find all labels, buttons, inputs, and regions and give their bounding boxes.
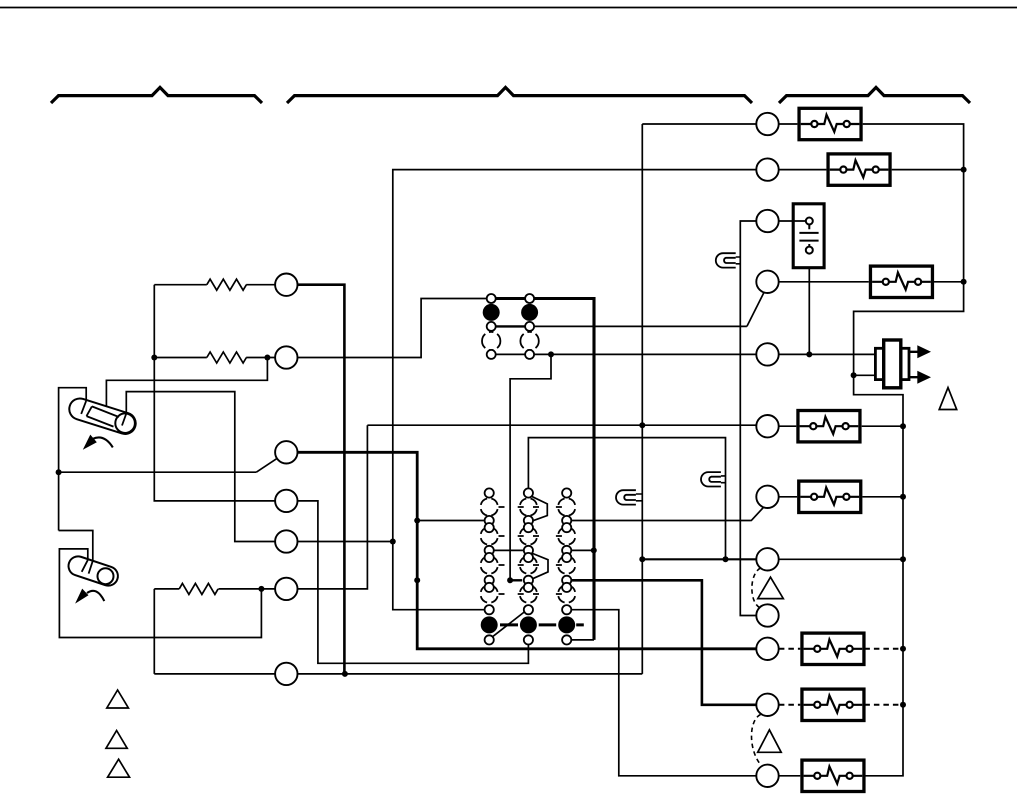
- tick marks at dashed rows: [499, 507, 562, 594]
- junction dot x417 at row y520: [414, 518, 420, 524]
- terminal B: [756, 548, 778, 570]
- lamp L2 (pilot light): [701, 472, 725, 486]
- wire: lower stack row y609 right to terminal F: [571, 610, 756, 776]
- wire: terminal A right to relay K5 and bus x903: [779, 496, 903, 498]
- terminal L6: [275, 578, 297, 600]
- LOWER CONTACT STACK (system switch): [481, 488, 584, 644]
- terminal L2: [275, 346, 297, 368]
- terminal L3: [275, 441, 297, 463]
- bars at filled contact row: [500, 623, 584, 626]
- note triangle 6: [108, 759, 130, 777]
- terminal R5: [756, 343, 778, 365]
- terminal C: [756, 604, 778, 626]
- RELAYS: [798, 108, 933, 791]
- wire: lower stack row y580 right to relay row E (thick): [571, 580, 756, 705]
- terminal F: [756, 765, 778, 787]
- page top border: [0, 7, 1017, 9]
- lamp L1 (pilot light): [716, 253, 741, 267]
- wire: mercury switch 1 third electrode to terminal L5: [126, 392, 275, 542]
- dashed arc terminal E to F: [752, 715, 761, 765]
- terminal R4: [756, 271, 778, 293]
- wire: terminal R2 to relay K2 and right bus: [779, 169, 964, 171]
- wire: lower stack row y550 segments to thick vertical: [494, 549, 594, 551]
- relay K1 (fan relay): [799, 108, 861, 139]
- wire: upper stack bottom row to transformer row R5: [491, 353, 875, 355]
- relay K8: [802, 760, 864, 791]
- terminal R1: [756, 113, 778, 135]
- resistor R3 zigzag: [179, 583, 218, 594]
- wire: thick stub into lower stack col2 row y580: [510, 579, 522, 581]
- wire: mercury switch 1 left electrode to common bus: [59, 388, 87, 531]
- zigzag link col2 wafer3: [530, 553, 548, 580]
- relay K3: [870, 266, 932, 297]
- bottom small contact circles: [485, 635, 572, 644]
- dashed large circles col2: [520, 499, 537, 603]
- contact filled circles row y312: [483, 304, 538, 321]
- wire: common row y472 to switch blade: [59, 471, 257, 473]
- wire: transformer bottom input from bus: [854, 374, 876, 376]
- filled contact circles bottom row: [481, 616, 576, 633]
- terminal R3: [756, 210, 778, 232]
- junction dot x510 at row y580: [507, 577, 513, 583]
- UPPER CONTACT STACK (fan switch): [482, 294, 539, 359]
- resistor R2 zigzag: [207, 352, 247, 363]
- dashed wire relay K6 to bus x903: [864, 648, 903, 650]
- wire: terminal L4 right to lower stack col2 bottom: [298, 501, 529, 663]
- wire: terminal L7 row to lamp bus x642: [154, 673, 642, 675]
- RIGHT TERMINALS: [756, 113, 778, 787]
- wire: x594 bottom link to lower stack col3 bottom contact: [571, 639, 594, 641]
- junction dot stack row to R5 row: [548, 351, 554, 357]
- contact small circles row y298: [487, 294, 534, 303]
- wire: terminal L2 right to upper contact stack top row: [298, 299, 487, 358]
- wire: upper stack row2 to blade of terminal R4: [534, 325, 747, 327]
- wire: row y437 from lower stack col2 top to vertical x725: [528, 438, 725, 560]
- junction dot switch box to R5 row: [806, 351, 812, 357]
- wire: relay row R6 long horizontal: [367, 424, 756, 426]
- wire: relay K1 right to right bus, bus loop to transformer and bus x903: [854, 124, 964, 776]
- wire: terminal R6 right to relay K4 and bus x903: [779, 425, 903, 427]
- wire: terminal L1 to vertical bus x344 (thick): [298, 285, 345, 674]
- switch blade at terminal L3: [256, 458, 277, 472]
- junction dot transformer input: [851, 372, 857, 378]
- junction dot bus x903 at K7: [900, 702, 906, 708]
- junction dot x725 at row B: [723, 556, 729, 562]
- dashed large circles col1: [481, 499, 498, 603]
- junction dot L5 to x393 bus: [390, 539, 396, 545]
- note triangle 2: [758, 577, 784, 598]
- junction dot bus x903 at row B: [900, 556, 906, 562]
- LEFT TERMINALS: [275, 274, 297, 686]
- wire: terminal B right to bus x903: [779, 558, 903, 560]
- mercury switch 1: [67, 396, 139, 450]
- wire: terminal R3 right into switch box: [779, 220, 806, 222]
- relay K4: [798, 411, 860, 442]
- wire: terminal L3 to vertical x417 down to relay row D (thick): [298, 452, 757, 649]
- note triangle 1: [939, 388, 957, 410]
- junction dot L6 resistor node: [258, 586, 264, 592]
- relay K2: [828, 154, 890, 185]
- wire: lower stack row y520 right to blade of terminal A: [571, 520, 751, 522]
- wire: lamp bus vertical x642 from relay row1 to L7 row: [641, 124, 643, 674]
- transformer power symbol: [875, 340, 931, 388]
- junction dot lamp bus at row R6: [639, 422, 645, 428]
- terminal A: [756, 486, 778, 508]
- terminal R6: [756, 415, 778, 437]
- small contact circles col1: [485, 488, 494, 614]
- wire: upper stack top row thick to vertical x594 down to col3 bottom: [489, 299, 594, 640]
- switch blade at terminal R4: [747, 292, 764, 326]
- zigzag link col2 wafer1: [530, 496, 547, 522]
- dashed wire terminal E to relay K7: [779, 704, 800, 706]
- junction dot right bus at K3: [961, 279, 967, 285]
- terminal R2: [756, 158, 778, 180]
- wire: terminal R4 right to relay K3 and right bus: [779, 281, 964, 283]
- blade link col1 bottom to col2: [493, 612, 525, 637]
- junction dot right bus at K2: [961, 167, 967, 173]
- wire: terminal F right to relay K8: [779, 775, 800, 777]
- note triangle 3: [758, 730, 782, 753]
- wire: terminal R3 left, pilot bus x740 down to terminal C: [740, 221, 756, 616]
- junction dot lamp bus at row B: [639, 556, 645, 562]
- wire: upper stack top row contacts bar: [487, 297, 534, 299]
- junction dot L1/L2 resistor bus: [151, 355, 157, 361]
- contact small circles row y326: [487, 322, 534, 331]
- wire: upper stack row2 bar (thick): [491, 325, 529, 327]
- wire: mercury switch 2 electrode B feed: [59, 531, 93, 561]
- terminal L7: [275, 663, 297, 685]
- wire: terminal R1 row: [642, 123, 797, 125]
- wire: vertical x154 from L6 row to L7 row: [153, 589, 155, 674]
- note triangle 4: [107, 690, 129, 708]
- terminal L1: [275, 274, 297, 296]
- dashed large circles row y341: [482, 332, 539, 350]
- resistor R1 zigzag: [207, 279, 247, 290]
- junction dot bus x903 at K6: [900, 646, 906, 652]
- junction dot x417 at row y580: [414, 577, 420, 583]
- wire: terminal L2 row left lead: [154, 357, 275, 359]
- dashed wire terminal D to relay K6: [779, 648, 800, 650]
- mercury switch 2: [66, 554, 120, 604]
- switch blade at terminal A: [751, 507, 764, 521]
- brace left (thermostat section): [51, 87, 262, 103]
- wire: vertical x154 from L1 row to L4 row: [154, 285, 275, 501]
- wire: terminal L6 right up to relay row R6: [298, 425, 368, 589]
- brace middle (subbase section): [287, 87, 752, 103]
- note triangle 5: [106, 731, 127, 749]
- wire: mercury switch 2 electrode A loop to resistor R3 node: [59, 549, 261, 638]
- brace right (system section): [779, 87, 970, 103]
- relay K6: [802, 633, 864, 664]
- dashed large circles col3: [558, 499, 575, 603]
- wire: terminal L1 row left lead: [154, 284, 275, 286]
- junction dot bus x903 at K5: [900, 494, 906, 500]
- junction dot L1 bus at L7 row: [342, 671, 348, 677]
- lamp L3 (pilot light): [616, 490, 642, 504]
- rotation arrow 1: [93, 437, 113, 447]
- rotation arrow 2: [87, 591, 104, 601]
- wire: terminal L5 right to vertical x393: [298, 541, 393, 543]
- wire: switch box bottom to row R5: [808, 268, 810, 355]
- terminal L5: [275, 530, 297, 552]
- junction dot L2 to mercury switch feed: [264, 355, 270, 361]
- junction dot bus x903 at K4: [900, 423, 906, 429]
- small contact circles col3: [562, 488, 571, 614]
- wire: row B from lamp bus to terminal B (medium): [642, 558, 756, 560]
- small contact circles col2: [524, 488, 533, 614]
- wire: jog from R5 row down into lower stack row y580: [510, 354, 551, 580]
- junction dot stack row y550 to thick bus: [591, 547, 597, 553]
- wire: mercury switch 1 electrode feed from L2 node: [106, 358, 267, 407]
- relay K5: [799, 481, 861, 512]
- terminal E: [756, 694, 778, 716]
- relay K7: [802, 689, 864, 720]
- dashed wire relay K7 to bus x903: [864, 704, 903, 706]
- terminal D: [756, 638, 778, 660]
- terminal L4: [275, 490, 297, 512]
- switch box (clock contact): [793, 204, 824, 268]
- contact small circles row y354: [487, 350, 534, 359]
- wire: terminal L6 row left lead: [154, 588, 275, 590]
- wire: lower stack row y520 left from x417: [417, 520, 484, 522]
- dashed arc terminal B to C: [752, 568, 761, 608]
- junction dot common bus y472: [56, 469, 62, 475]
- wire: vertical x393 net from relay row 2 to stack row y609.7: [393, 170, 757, 610]
